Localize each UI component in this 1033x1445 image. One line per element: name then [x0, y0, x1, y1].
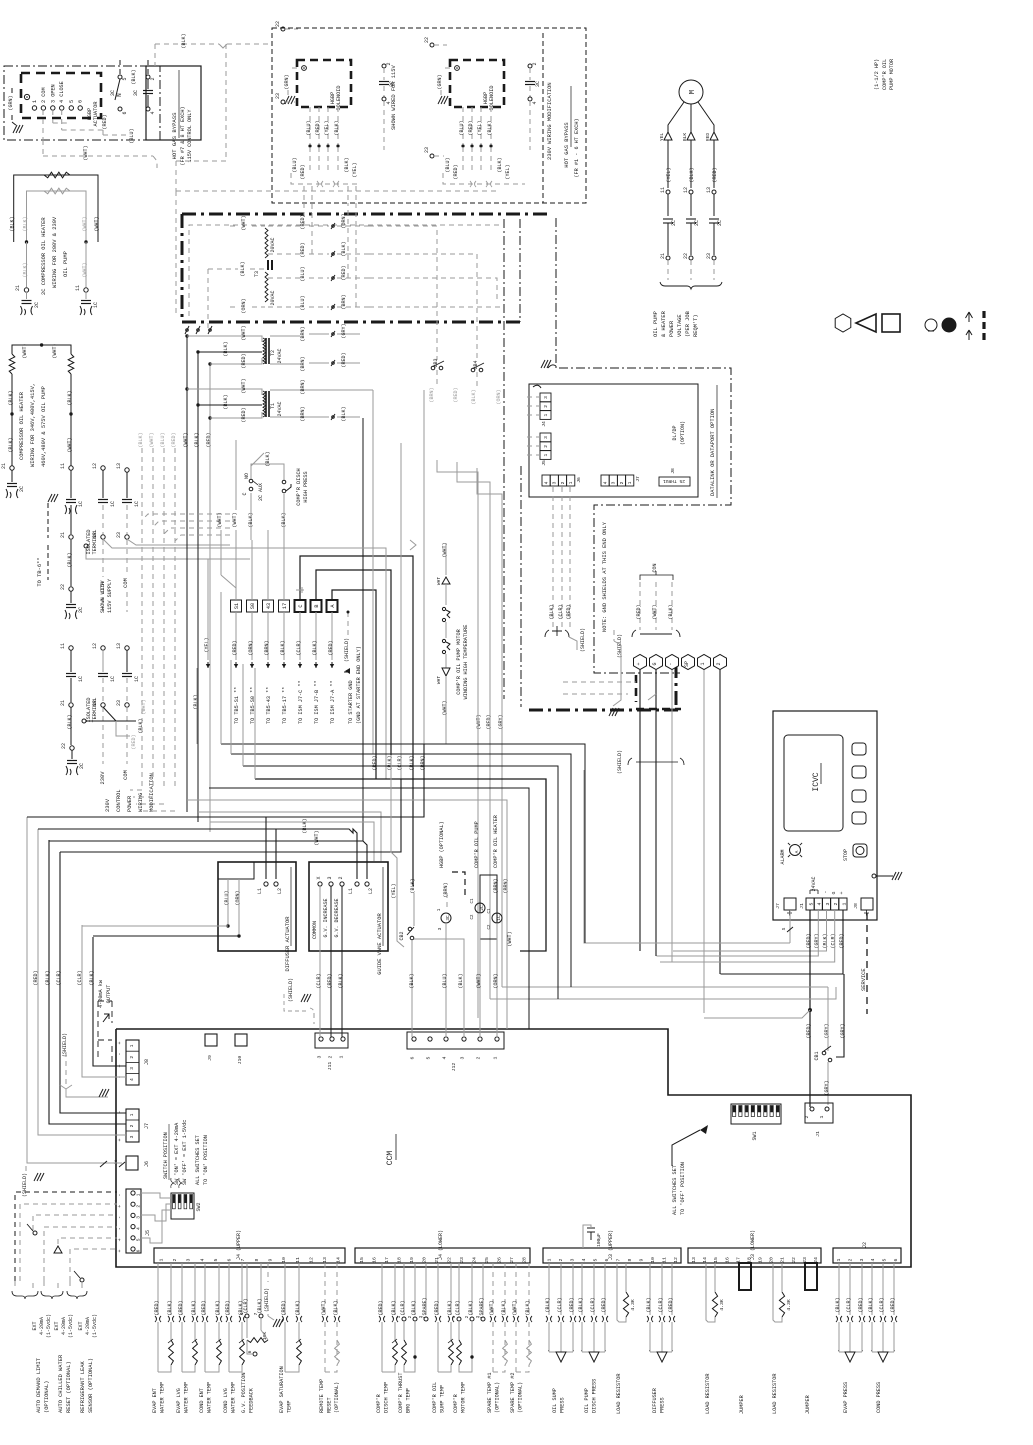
svg-text:3: 3: [327, 876, 333, 879]
svg-text:COMP'R: COMP'R: [376, 1394, 382, 1413]
svg-text:2: 2: [560, 481, 566, 484]
svg-text:22: 22: [275, 21, 281, 27]
svg-text:5: 5: [592, 1258, 598, 1261]
svg-text:8: 8: [627, 1258, 633, 1261]
svg-text:COND PRESS: COND PRESS: [876, 1382, 882, 1413]
svg-text:(BLK): (BLK): [45, 970, 51, 985]
wires WHT RED GRY to ICVC side: [437, 460, 502, 1018]
capacitor 3C with contacts 2-4: [131, 60, 156, 115]
svg-text:11: 11: [75, 285, 81, 291]
svg-text:6: 6: [122, 111, 128, 114]
svg-text:23: 23: [275, 93, 281, 99]
svg-text:(WHT): (WHT): [652, 604, 658, 619]
CCM J7 connector: [117, 1109, 150, 1142]
CCM J5 connector: [117, 1189, 151, 1253]
svg-text:1C: 1C: [78, 676, 84, 682]
svg-text:RED: RED: [705, 133, 711, 142]
svg-text:3: 3: [569, 1258, 575, 1261]
svg-text:(RED): (RED): [300, 242, 306, 257]
svg-text:COMP'R OIL: COMP'R OIL: [432, 1382, 438, 1413]
compressor oil heater 200V/230V circuit: [10, 172, 100, 315]
svg-text:C: C: [298, 604, 304, 607]
svg-text:(ORN): (ORN): [248, 640, 254, 655]
svg-text:S: S: [781, 927, 787, 930]
svg-text:4.3K: 4.3K: [786, 1299, 792, 1311]
svg-text:3 OPEN: 3 OPEN: [50, 84, 56, 103]
svg-text:FEEDBACK: FEEDBACK: [249, 1387, 255, 1413]
svg-text:21: 21: [15, 285, 21, 291]
svg-text:1: 1: [397, 1315, 402, 1318]
svg-text:J10: J10: [237, 1056, 243, 1065]
bundle middle verticals to right staircase: [187, 744, 585, 1029]
evap press transducer: [835, 1263, 865, 1413]
svg-text:(BLK): (BLK): [411, 1300, 417, 1315]
HGBP solenoid 115V: [284, 60, 351, 148]
wires from isolated terminal to right: [86, 539, 250, 559]
svg-text:1: 1: [129, 1044, 135, 1047]
svg-text:WHT: WHT: [436, 577, 442, 586]
transformer T1 24VAC: [187, 378, 373, 422]
svg-text:25: 25: [484, 1257, 490, 1263]
svg-text:ALL SWITCHES SET: ALL SWITCHES SET: [672, 1165, 678, 1215]
svg-text:4: 4: [544, 481, 550, 484]
svg-text:(WHT): (WHT): [241, 325, 247, 340]
svg-text:(BLK): (BLK): [131, 69, 137, 84]
CON dashed wires to hexagons: [609, 563, 680, 716]
svg-text:COMP'R OIL: COMP'R OIL: [882, 59, 888, 90]
svg-text:GUIDE VANE ACTUATOR: GUIDE VANE ACTUATOR: [377, 913, 383, 975]
svg-text:(BLU): (BLU): [129, 128, 135, 143]
svg-text:(GRY): (GRY): [498, 714, 504, 729]
svg-text:(RED): (RED): [154, 1300, 160, 1315]
svg-text:1: 1: [836, 1258, 842, 1261]
svg-text:7: 7: [253, 1312, 259, 1315]
T3 secondary rows: [268, 213, 504, 362]
svg-text:EXT: EXT: [78, 1321, 84, 1330]
svg-text:TO ISM J7-C **: TO ISM J7-C **: [298, 680, 304, 724]
svg-text:(WHT): (WHT): [442, 542, 448, 557]
svg-text:J8: J8: [853, 903, 859, 909]
svg-text:1C: 1C: [110, 676, 116, 682]
terminal strip J4 upper: [154, 1230, 345, 1263]
svg-text:(CLR): (CLR): [658, 1297, 664, 1312]
svg-text:HOT GAS BYPASS: HOT GAS BYPASS: [564, 122, 570, 167]
svg-text:(BLK): (BLK): [410, 878, 416, 893]
svg-text:4-20mA: 4-20mA: [39, 1317, 45, 1335]
svg-text:(RED): (RED): [131, 734, 137, 749]
svg-text:2: 2: [848, 1258, 854, 1261]
compr oil pump contact 2C: [471, 821, 509, 1037]
svg-text:S0: S0: [250, 603, 256, 609]
svg-text:4: 4: [817, 902, 823, 905]
svg-text:(RED): (RED): [178, 1300, 184, 1315]
svg-text:(WHT): (WHT): [507, 931, 513, 946]
svg-text:(BLK): (BLK): [409, 755, 415, 770]
svg-text:G: G: [831, 891, 837, 894]
svg-text:CON: CON: [652, 563, 658, 572]
svg-text:4 CLOSE: 4 CLOSE: [59, 81, 65, 103]
motor leads YEL BLK RED with fuse triangles: [659, 102, 718, 188]
brace oil pump power: [653, 282, 722, 337]
svg-text:3: 3: [317, 1055, 323, 1058]
svg-text:(BLK): (BLK): [8, 390, 14, 405]
svg-text:(SHIELD): (SHIELD): [344, 638, 350, 662]
svg-text:TO TB-6**: TO TB-6**: [37, 557, 43, 586]
svg-text:(GRY): (GRY): [824, 1080, 830, 1095]
svg-text:3C: 3C: [535, 81, 541, 87]
svg-text:WATER TEMP: WATER TEMP: [160, 1382, 166, 1413]
svg-text:-: -: [117, 1193, 123, 1196]
ICVC J1 wire routing to left: [584, 770, 843, 1107]
svg-text:(GRY): (GRY): [814, 933, 820, 948]
svg-text:(BLK): (BLK): [138, 432, 144, 447]
label datalink or dataport option: [710, 385, 717, 498]
CCM J8 connector: [117, 1040, 150, 1085]
svg-text:J7: J7: [635, 476, 641, 482]
svg-text:(RED): (RED): [839, 933, 845, 948]
svg-text:1: 1: [158, 1258, 164, 1261]
svg-text:BLK: BLK: [682, 133, 688, 142]
svg-text:(RED): (RED): [668, 1297, 674, 1312]
svg-text:11: 11: [660, 187, 666, 193]
svg-text:(YEL): (YEL): [666, 167, 672, 182]
GV position feedback potentiometer: [239, 1263, 283, 1413]
svg-text:43: 43: [266, 603, 272, 609]
svg-text:(BLU): (BLU): [306, 120, 312, 135]
svg-text:SW 'OFF' = EXT 1-5Vdc: SW 'OFF' = EXT 1-5Vdc: [182, 1120, 188, 1185]
svg-text:TO TB5-17 **: TO TB5-17 **: [282, 687, 288, 724]
svg-text:5: 5: [426, 1056, 432, 1059]
svg-text:(WHT): (WHT): [82, 216, 88, 231]
svg-text:(WHT): (WHT): [22, 343, 28, 358]
svg-text:CB2: CB2: [399, 931, 405, 940]
svg-text:(BLK): (BLK): [487, 120, 493, 135]
svg-text:(BRN): (BRN): [443, 882, 449, 897]
J6 dashed wires down with shield: [545, 487, 586, 652]
wires above terminal blocks: [217, 440, 413, 886]
svg-text:(BRN): (BRN): [300, 356, 306, 371]
svg-text:22: 22: [446, 1257, 452, 1263]
svg-text:-: -: [117, 1216, 123, 1219]
svg-text:(BLK): (BLK): [23, 216, 29, 231]
HGBP actuator (thick dashed box): [21, 73, 101, 126]
svg-text:11: 11: [60, 643, 66, 649]
svg-text:3: 3: [543, 396, 549, 399]
svg-text:3: 3: [129, 1135, 135, 1138]
svg-text:OIL PUMP: OIL PUMP: [584, 1388, 590, 1413]
svg-text:(RED): (RED): [328, 640, 334, 655]
spare temp 2 sensor dashed: [510, 1263, 532, 1413]
svg-text:(1-5vdc): (1-5vdc): [68, 1314, 74, 1338]
svg-text:DIFFUSER: DIFFUSER: [652, 1388, 658, 1413]
svg-text:1C: 1C: [110, 501, 116, 507]
svg-text:1: 1: [493, 1056, 499, 1059]
svg-text:.: .: [893, 1347, 896, 1353]
svg-text:3: 3: [825, 902, 831, 905]
svg-text:LOAD RESISTOR: LOAD RESISTOR: [705, 1374, 711, 1414]
svg-text:.: .: [547, 1347, 550, 1353]
svg-text:13: 13: [691, 1257, 697, 1263]
svg-text:(RED): (RED): [327, 973, 333, 988]
svg-text:SWITCH POSITION: SWITCH POSITION: [163, 1132, 169, 1179]
svg-text:3C: 3C: [133, 90, 139, 96]
diffuser press transducer: [646, 1263, 675, 1413]
svg-text:WINDING HIGH TEMPERATURE: WINDING HIGH TEMPERATURE: [463, 625, 469, 700]
svg-text:(1-5vdc): (1-5vdc): [46, 1314, 52, 1338]
CCM J1 2-pin connector: [804, 1103, 833, 1137]
dashed bus lower bends: [130, 790, 175, 811]
shield bracket below hexagons: [617, 750, 684, 774]
svg-text:DIFFUSER ACTUATOR: DIFFUSER ACTUATOR: [285, 916, 291, 972]
svg-text:T2: T2: [270, 350, 276, 356]
svg-text:OIL PUMP: OIL PUMP: [653, 311, 659, 337]
svg-text:(SHIELD): (SHIELD): [288, 978, 294, 1002]
svg-text:23: 23: [116, 532, 122, 538]
HGBP actuator option enclosure (dash-dot box): [4, 66, 160, 140]
230V group lower wiring: [443, 147, 525, 187]
svg-text:T1: T1: [270, 403, 276, 409]
svg-text:MOTOR TEMP: MOTOR TEMP: [461, 1382, 467, 1413]
svg-text:(BLK): (BLK): [868, 1297, 874, 1312]
svg-text:(BLK): (BLK): [194, 432, 200, 447]
svg-text:17: 17: [282, 603, 288, 609]
feed contacts 22/23 115V group: [275, 21, 298, 104]
svg-text:(RED): (RED): [890, 1297, 896, 1312]
svg-text:10: 10: [650, 1257, 656, 1263]
svg-text:230V: 230V: [105, 798, 111, 812]
svg-text:TO ISM J7-A **: TO ISM J7-A **: [330, 680, 336, 724]
svg-text:-: -: [117, 1227, 123, 1230]
svg-text:EXT: EXT: [54, 1321, 60, 1330]
svg-text:21: 21: [780, 1257, 786, 1263]
contacts 2/3C/4 for 230V group: [525, 62, 541, 150]
svg-text:(BLK): (BLK): [67, 552, 73, 567]
inner gray dashed box transformer area: [176, 191, 500, 316]
svg-text:(RED): (RED): [300, 164, 306, 179]
svg-text:C: C: [242, 492, 248, 495]
svg-text:POWER: POWER: [127, 795, 133, 812]
oil pump power terminals 11-13 21-23 with 2C contacts: [660, 187, 723, 280]
svg-text:230V: 230V: [100, 771, 106, 785]
svg-text:WHT: WHT: [436, 676, 442, 685]
svg-text:(RED): (RED): [33, 970, 39, 985]
svg-text:1: 1: [436, 908, 442, 911]
svg-text:(WHT): (WHT): [512, 1300, 518, 1315]
svg-text:JUMPER: JUMPER: [739, 1395, 745, 1414]
svg-text:(BLK): (BLK): [257, 1298, 263, 1313]
svg-text:5: 5: [213, 1258, 219, 1261]
svg-text:EVAP ENT: EVAP ENT: [152, 1388, 158, 1413]
svg-text:X: X: [316, 876, 322, 879]
svg-text:EVAP SATURATION: EVAP SATURATION: [279, 1366, 285, 1413]
svg-text:(OPTIONAL): (OPTIONAL): [44, 1381, 50, 1413]
ICVC ground: [872, 872, 902, 880]
svg-text:(WHT): (WHT): [94, 216, 100, 231]
svg-text:16: 16: [371, 1257, 377, 1263]
J4/J5 board stub wires: [527, 397, 540, 455]
svg-text:1: 1: [339, 1055, 345, 1058]
svg-text:26: 26: [496, 1257, 502, 1263]
shield wire to ground at J8: [60, 1033, 109, 1097]
load resistor J3 lower 1: [705, 1263, 725, 1414]
svg-text:(BLK): (BLK): [8, 437, 14, 452]
svg-text:+: +: [117, 1249, 123, 1252]
svg-text:(BLK): (BLK): [835, 1297, 841, 1312]
svg-text:(BRN): (BRN): [300, 326, 306, 341]
svg-text:(BLK): (BLK): [545, 1297, 551, 1312]
svg-text:1: 1: [700, 662, 706, 665]
SW1 dip switch: [731, 1104, 781, 1141]
svg-text:(CLR): (CLR): [846, 1297, 852, 1312]
115V group lower wiring: [291, 147, 360, 203]
svg-text:23: 23: [424, 147, 430, 153]
svg-text:36: 36: [115, 1159, 119, 1164]
svg-text:10: 10: [281, 1257, 287, 1263]
CCM J11 connector: [315, 1033, 348, 1070]
svg-text:(SHIELD): (SHIELD): [62, 1033, 68, 1057]
svg-text:TERMINAL: TERMINAL: [92, 698, 98, 723]
svg-text:(WHT): (WHT): [217, 512, 223, 527]
svg-text:9: 9: [638, 1258, 644, 1261]
svg-text:(RED): (RED): [434, 1300, 440, 1315]
compr oil heater contact 1C: [488, 815, 513, 1037]
svg-text:2: 2: [716, 662, 722, 665]
svg-text:4-20mA: 4-20mA: [61, 1317, 67, 1335]
svg-text:TO TB5-S1 **: TO TB5-S1 **: [234, 687, 240, 724]
svg-text:REMOTE TEMP: REMOTE TEMP: [319, 1379, 325, 1413]
svg-text:COMP'R OIL PUMP: COMP'R OIL PUMP: [474, 821, 480, 868]
datalink inner board box: [529, 384, 698, 497]
svg-text:CB1: CB1: [814, 1051, 820, 1060]
transformer T3: [254, 228, 276, 306]
100uF capacitor at J3: [583, 1225, 602, 1248]
svg-text:2: 2: [465, 1315, 470, 1318]
svg-text:(BRN): (BRN): [341, 294, 347, 309]
svg-text:(BLU): (BLU): [224, 890, 230, 905]
svg-text:12: 12: [683, 187, 689, 193]
svg-text:(WHT): (WHT): [52, 343, 58, 358]
label 230V control power wiring modification: [105, 773, 155, 812]
svg-text:20: 20: [421, 1257, 427, 1263]
svg-text:AUTO DEMAND LIMIT: AUTO DEMAND LIMIT: [36, 1357, 42, 1413]
right staircase verticals to ICVC feeds: [583, 770, 585, 943]
svg-text:N: N: [116, 93, 123, 97]
svg-text:(GND AT STARTER END ONLY): (GND AT STARTER END ONLY): [356, 646, 362, 724]
svg-text:1: 1: [32, 100, 38, 103]
svg-text:.: .: [580, 1347, 583, 1353]
svg-text:(RED): (RED): [636, 604, 642, 619]
svg-text:(BLK): (BLK): [223, 394, 229, 409]
gray pair from isolated terminals to comp disch: [250, 540, 416, 779]
svg-text:(ORN): (ORN): [341, 213, 347, 228]
svg-text:2C AUX: 2C AUX: [258, 483, 264, 501]
thick dashed service box fragment: [563, 675, 681, 709]
svg-text:WATER TEMP: WATER TEMP: [184, 1382, 190, 1413]
terminal strip J4 lower: [355, 1230, 530, 1263]
svg-text:(ORN): (ORN): [493, 973, 499, 988]
diffuser actuator box: [218, 862, 296, 972]
svg-text:(RED): (RED): [858, 1297, 864, 1312]
svg-text:(RED): (RED): [566, 604, 572, 619]
svg-text:(BLK): (BLK): [689, 167, 695, 182]
svg-text:ALARM: ALARM: [780, 849, 786, 864]
svg-text:1: 1: [568, 481, 574, 484]
svg-text:1: 1: [819, 1115, 825, 1118]
svg-text:DL/DP: DL/DP: [672, 425, 678, 440]
svg-text:J7: J7: [775, 903, 781, 909]
svg-text:1: 1: [841, 902, 847, 905]
svg-text:(WHT): (WHT): [67, 437, 73, 452]
svg-text:(RED): (RED): [225, 1300, 231, 1315]
svg-text:(WHT): (WHT): [183, 432, 189, 447]
connector J4 (board): [540, 393, 551, 427]
ICVC J1 connector 5-4-3-2-1: [799, 876, 847, 910]
svg-text:A: A: [794, 850, 800, 853]
svg-text:1: 1: [136, 1193, 142, 1196]
guide vane feed verticals from bundle: [363, 744, 446, 912]
svg-text:+: +: [839, 891, 845, 894]
connector J5 (board): [540, 433, 551, 466]
svg-text:25 THRU1: 25 THRU1: [663, 478, 685, 484]
svg-text:J5: J5: [541, 460, 547, 466]
svg-text:3: 3: [543, 436, 549, 439]
svg-text:13: 13: [706, 187, 712, 193]
4-20mA output wires: [77, 925, 239, 1077]
svg-text:(OPTIONAL): (OPTIONAL): [334, 1382, 340, 1413]
svg-text:(SHIELD): (SHIELD): [617, 750, 623, 774]
svg-text:(BRN): (BRN): [300, 406, 306, 421]
svg-text:SHOWN WIRED FOR 115V: SHOWN WIRED FOR 115V: [391, 65, 397, 130]
svg-text:(WHT): (WHT): [489, 1300, 495, 1315]
CCM J9 J10 connectors: [205, 1034, 247, 1064]
svg-text:HOT GAS BYPASS: HOT GAS BYPASS: [171, 112, 178, 160]
svg-text:B: B: [314, 604, 320, 607]
svg-text:17: 17: [384, 1257, 390, 1263]
evap saturation temp sensor: [279, 1263, 302, 1413]
svg-text:G.V. INCREASE: G.V. INCREASE: [323, 898, 329, 937]
svg-text:YEL: YEL: [659, 133, 665, 142]
svg-text:2 COM: 2 COM: [41, 87, 47, 103]
svg-text:5: 5: [122, 77, 128, 80]
svg-text:(BRN): (BRN): [503, 878, 509, 893]
ICVC J8 connector: [853, 898, 873, 916]
svg-text:6: 6: [247, 1350, 253, 1353]
svg-text:G: G: [652, 662, 658, 665]
svg-text:19: 19: [409, 1257, 415, 1263]
svg-text:TEMP: TEMP: [287, 1401, 293, 1413]
svg-text:(GRY): (GRY): [824, 1023, 830, 1038]
svg-text:2: 2: [476, 1056, 482, 1059]
svg-text:20: 20: [769, 1257, 775, 1263]
svg-text:2: 2: [129, 1124, 135, 1127]
svg-text:J7: J7: [144, 1123, 150, 1129]
svg-text:(YEL): (YEL): [324, 120, 330, 135]
svg-text:11: 11: [60, 463, 66, 469]
connector J6 (board): [542, 475, 582, 486]
svg-text:115V CONTROL ONLY: 115V CONTROL ONLY: [187, 109, 193, 163]
ICVC J1 wire labels: [806, 933, 845, 948]
cond press transducer: [868, 1263, 897, 1413]
svg-text:2C: 2C: [79, 763, 85, 769]
wires from far left to ICVC area: [490, 987, 836, 999]
svg-text:23: 23: [116, 700, 122, 706]
svg-text:(BRN): (BRN): [429, 387, 435, 402]
svg-text:RESET: RESET: [327, 1397, 333, 1413]
svg-text:(YEL): (YEL): [505, 164, 511, 179]
svg-text:SOLENOID: SOLENOID: [489, 86, 495, 111]
jumper 2: [805, 1263, 817, 1414]
svg-text:11: 11: [295, 1257, 301, 1263]
